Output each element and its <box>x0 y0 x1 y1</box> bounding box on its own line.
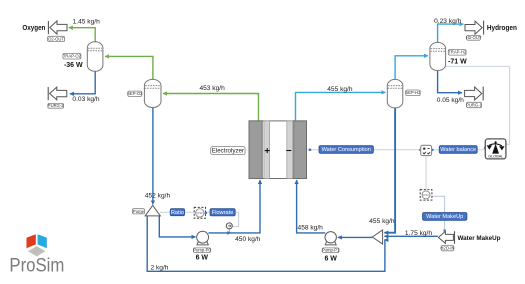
svg-text:TRAP-H2: TRAP-H2 <box>448 50 467 55</box>
info link: sensor stem <box>228 229 230 233</box>
port nub H2O-IN info link <box>444 229 446 231</box>
stream pump P1 out 458 kg/h to electrolyzer <box>297 180 326 233</box>
svg-text:Oxygen: Oxygen <box>22 25 45 32</box>
svg-text:O2-OUT: O2-OUT <box>48 36 64 41</box>
feed icon H2O-IN Water MakeUp <box>438 231 454 244</box>
pump P0 <box>197 231 209 245</box>
label box PURG-1 <box>466 102 482 107</box>
blue label Ratio <box>170 209 184 216</box>
svg-text:GLOBAL: GLOBAL <box>488 155 503 159</box>
svg-text:2 kg/h: 2 kg/h <box>151 264 169 271</box>
svg-text:PURG-2: PURG-2 <box>48 103 64 108</box>
svg-text:Water Consumption: Water Consumption <box>322 147 371 153</box>
stream water makeup 1.75 kg/h to mixer <box>384 235 438 237</box>
svg-text:Water balance: Water balance <box>440 147 476 153</box>
vessel SEP-O2 <box>144 79 161 107</box>
port nub electrolyzer info link <box>309 149 311 151</box>
blue label Water Consumption <box>319 146 373 154</box>
info link: makeup spec to H2O-IN feed <box>432 196 445 230</box>
global balance icon <box>484 139 507 159</box>
stream O2 product 1.45 kg/h <box>69 28 95 42</box>
svg-text:Water MakeUp: Water MakeUp <box>458 235 501 242</box>
vessel SEP-H2 <box>387 79 403 108</box>
svg-text:H2O-IN: H2O-IN <box>440 246 454 251</box>
pump P1 <box>325 232 336 245</box>
outlet icon H2-OUT <box>465 21 484 35</box>
svg-text:455 kg/h: 455 kg/h <box>369 218 395 225</box>
vessel TRAP-O2 <box>87 42 103 72</box>
label box H2O-IN <box>440 245 454 250</box>
stream SEP-H2 top to TRAP-H2 <box>395 56 428 79</box>
svg-text:Water MakeUp: Water MakeUp <box>426 214 463 220</box>
blue label Water balance <box>439 146 477 154</box>
svg-text:1.45 kg/h: 1.45 kg/h <box>73 18 100 25</box>
label box Pump-P0 <box>193 248 211 253</box>
stream SEP-H2 bottom 455 kg/h to mixer <box>384 108 395 233</box>
svg-text:SPEC: SPEC <box>196 211 203 215</box>
stream TRAP-O2 purge 0.03 kg/h <box>70 72 95 94</box>
label box PURG-2 <box>48 103 64 108</box>
svg-text:TRAP-O2: TRAP-O2 <box>63 54 82 59</box>
stream electrolyzer H2 side 455 kg/h <box>296 92 386 120</box>
label box O2-OUT <box>48 36 65 41</box>
info link: electrolyzer to global balance <box>306 149 485 151</box>
svg-text:Purge: Purge <box>133 209 145 214</box>
spec icon W (water balance spec) <box>419 145 433 155</box>
stream SEP-O2 top to TRAP-O2 <box>105 56 153 79</box>
svg-text:-71 W: -71 W <box>448 58 467 65</box>
label box H2-OUT <box>466 35 482 40</box>
sensor on 450 line <box>226 223 232 229</box>
svg-text:Flowrate: Flowrate <box>212 210 233 216</box>
svg-text:Electrolyzer: Electrolyzer <box>212 148 244 155</box>
svg-text:0.05 kg/h: 0.05 kg/h <box>437 97 464 104</box>
svg-text:455 kg/h: 455 kg/h <box>327 86 353 93</box>
svg-text:SEP-H2: SEP-H2 <box>405 90 421 95</box>
svg-text:Pump-P0: Pump-P0 <box>193 248 211 253</box>
svg-text:Hydrogen: Hydrogen <box>487 25 517 32</box>
svg-text:ProSim: ProSim <box>9 255 64 277</box>
svg-text:-36 W: -36 W <box>64 62 83 69</box>
label box Purge <box>132 209 144 214</box>
svg-text:SPEC: SPEC <box>422 193 429 197</box>
stream splitter to pump P0 <box>159 216 195 237</box>
spec icon MAKE-UP <box>420 190 432 201</box>
info link: spec W down to makeup spec <box>425 155 427 189</box>
ProSim logo cube red face <box>27 234 36 248</box>
mixer <box>372 230 382 244</box>
spec icon Ratio/Flowrate <box>194 207 207 218</box>
vessel TRAP-H2 <box>430 42 446 70</box>
outlet icon O2-OUT <box>48 21 67 34</box>
electrolyzer U1 <box>249 121 307 179</box>
svg-text:1.75 kg/h: 1.75 kg/h <box>405 230 432 237</box>
ProSim logo cube gray base <box>28 246 45 256</box>
svg-text:458 kg/h: 458 kg/h <box>298 224 324 231</box>
svg-text:Pump-P1: Pump-P1 <box>322 248 340 253</box>
svg-text:H2-OUT: H2-OUT <box>466 35 482 40</box>
svg-text:452 kg/h: 452 kg/h <box>145 192 171 199</box>
svg-text:PURG-1: PURG-1 <box>466 102 482 107</box>
stream H2 product 0.23 kg/h <box>438 24 464 42</box>
stream electrolyzer O2 side 453 kg/h <box>163 94 259 121</box>
svg-text:SEP-O2: SEP-O2 <box>127 91 143 96</box>
svg-text:6 W: 6 W <box>324 256 337 263</box>
stream pump P0 out 450 kg/h to electrolyzer <box>208 180 260 233</box>
label box TRAP-O2 <box>63 53 82 59</box>
svg-text:453 kg/h: 453 kg/h <box>199 85 225 92</box>
mid arrow on 450 line <box>227 231 231 235</box>
stream mixer to pump P1 <box>338 236 372 238</box>
svg-text:6 W: 6 W <box>196 255 209 262</box>
label box SEP-H2 <box>405 90 421 96</box>
blue label Flowrate <box>210 209 235 216</box>
info link: TRAP-H2 to global balance <box>445 66 509 144</box>
svg-text:0.23 kg/h: 0.23 kg/h <box>434 18 461 25</box>
stream SEP-O2 bottom 452 kg/h to splitter <box>152 108 154 205</box>
splitter Purge <box>145 205 160 216</box>
stream purge recycle 2 kg/h <box>147 216 385 271</box>
svg-text:450 kg/h: 450 kg/h <box>235 236 261 243</box>
outlet icon PURG-2 <box>48 87 67 100</box>
outlet icon PURG-1 <box>465 87 484 101</box>
svg-text:Ratio: Ratio <box>171 210 184 216</box>
label box Pump-P1 <box>322 248 340 253</box>
info link: splitter to Ratio spec to Flowrate to sensor <box>160 212 239 226</box>
label box SEP-O2 <box>127 91 143 96</box>
blue label Water MakeUp <box>423 213 467 221</box>
stream TRAP-H2 purge 0.05 kg/h <box>438 71 462 93</box>
ProSim logo cube blue face <box>38 234 47 248</box>
label box TRAP-H2 <box>448 50 467 56</box>
label box Electrolyzer <box>211 147 245 155</box>
svg-text:0.03 kg/h: 0.03 kg/h <box>72 96 99 103</box>
